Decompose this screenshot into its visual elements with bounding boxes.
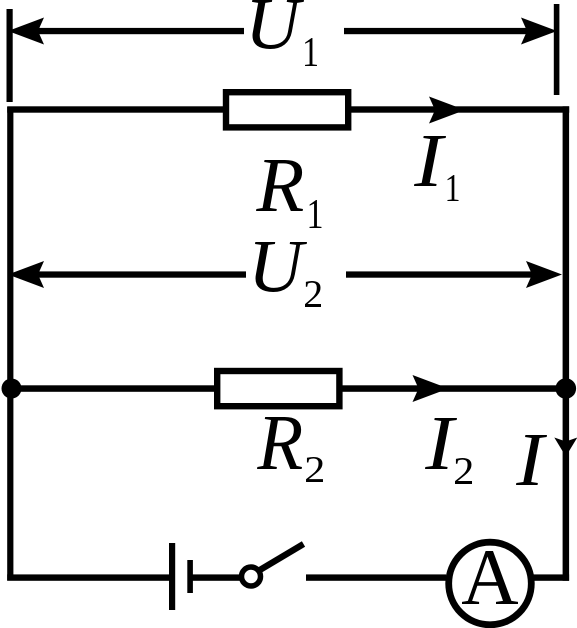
voltage arrow U2 [8, 261, 562, 288]
wire : ammeter to right corner segment [533, 574, 569, 580]
junction node right [556, 378, 577, 399]
wire : middle branch horizontal [7, 385, 569, 392]
junction node left [2, 379, 22, 399]
ammeter A [449, 542, 532, 625]
wire : left vertical wire [7, 107, 13, 581]
U1 measurement left terminal bar [7, 9, 13, 102]
wire : top branch horizontal [7, 106, 569, 112]
current arrow I [554, 438, 577, 457]
label I [516, 435, 547, 485]
battery [169, 543, 193, 610]
label I1 [414, 136, 459, 201]
wire : bottom wire left segment to battery [7, 574, 172, 580]
voltage arrow U1 [8, 18, 557, 45]
wire : battery to switch segment [192, 574, 241, 580]
current arrow I2 [413, 375, 449, 402]
label U2 [255, 242, 321, 307]
label I2 [425, 418, 472, 484]
label R2 [257, 417, 323, 482]
resistor R1 [226, 92, 348, 127]
current arrow I1 [429, 97, 465, 124]
label U1 [252, 0, 317, 66]
label R1 [256, 160, 321, 228]
wire : switch to ammeter segment [306, 574, 446, 580]
switch S [242, 544, 304, 586]
resistor R2 [217, 371, 339, 406]
U1 measurement right terminal bar [554, 4, 560, 95]
wire : right vertical wire [563, 106, 570, 581]
